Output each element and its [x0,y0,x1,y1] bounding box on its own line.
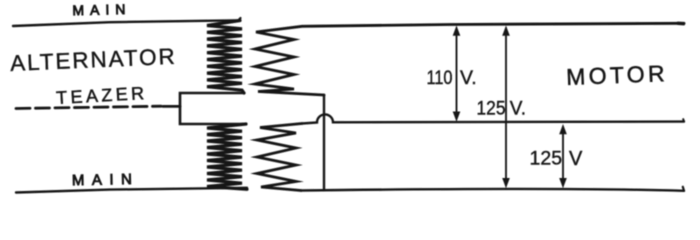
svg-text:V.: V. [460,67,477,89]
svg-text:125: 125 [477,98,506,119]
svg-text:MAIN: MAIN [72,1,131,18]
svg-text:125: 125 [530,148,563,170]
svg-text:V.: V. [510,98,526,119]
svg-text:110: 110 [427,67,453,89]
svg-text:MAIN: MAIN [72,171,140,189]
svg-text:V: V [569,148,583,170]
svg-text:MOTOR: MOTOR [566,60,669,90]
